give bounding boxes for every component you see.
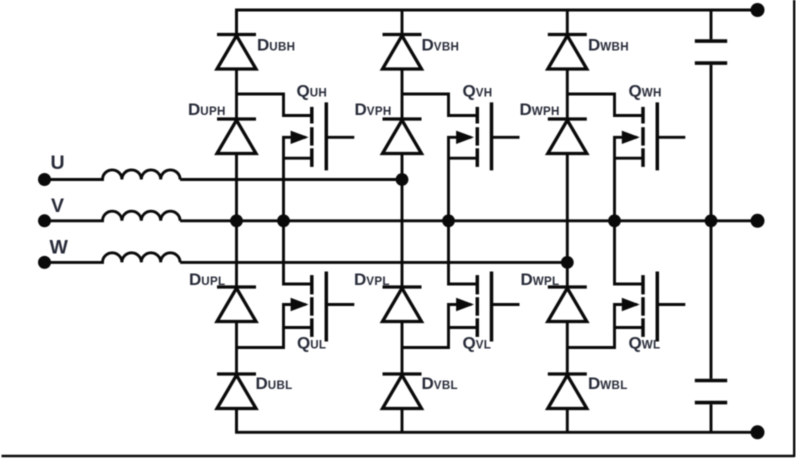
wire: phase W line with inductor (45, 253, 568, 263)
wire: leg W vertical chain (566, 10, 569, 432)
node: mid-line junction leg W switch (608, 214, 621, 227)
node: mid-line junction leg U switch (277, 214, 290, 227)
wire: negative DC bottom rail (237, 409, 758, 433)
wire: leg V vertical chain (401, 10, 404, 432)
wire: leg U vertical chain (235, 10, 238, 432)
node: W input terminal (38, 256, 51, 269)
node: U input terminal (38, 173, 51, 186)
diode DUBL (217, 374, 256, 409)
diode DVBL (383, 374, 422, 409)
node: V input terminal (38, 214, 51, 227)
transistor QVL (MOSFET) (402, 221, 520, 348)
node: U phase junction on leg V chain (396, 173, 409, 186)
svg-text:W: W (50, 237, 69, 259)
diode DUBH (217, 35, 256, 70)
diode DWPH (548, 119, 587, 154)
node: mid-line junction leg U chain (230, 214, 243, 227)
node: neutral output terminal (751, 214, 765, 228)
wire: phase V line with inductor (45, 211, 758, 221)
transistor QVH (MOSFET) (402, 94, 520, 221)
node: DC+ output terminal (751, 3, 765, 17)
diode DWBL (548, 374, 587, 409)
border: right rule (793, 0, 795, 457)
capacitor C1 (top DC-link) (695, 10, 727, 221)
transistor QWL (MOSFET) (567, 221, 685, 348)
node: mid-line junction leg V switch (442, 214, 455, 227)
svg-text:U: U (51, 152, 65, 174)
node: W phase junction on leg W chain (561, 256, 574, 269)
diode DVBH (383, 35, 422, 70)
transistor QUH (MOSFET) (237, 94, 355, 221)
border: bottom rule (2, 455, 795, 457)
svg-text:V: V (51, 195, 64, 217)
diode DVPH (383, 119, 422, 154)
diode DWPL (548, 287, 587, 322)
transistor QWH (MOSFET) (567, 94, 685, 221)
diode DWBH (548, 35, 587, 70)
node: DC- output terminal (751, 425, 765, 439)
node: mid-line junction capacitor midpoint (705, 214, 718, 227)
capacitor C2 (bottom DC-link) (695, 221, 727, 432)
transistor QUL (MOSFET) (237, 221, 355, 348)
diode DUPH (217, 119, 256, 154)
diode DUPL (217, 287, 256, 322)
diode DVPL (383, 287, 422, 322)
wire: phase U line with inductor (45, 170, 403, 180)
wire: positive DC top rail (237, 10, 758, 35)
